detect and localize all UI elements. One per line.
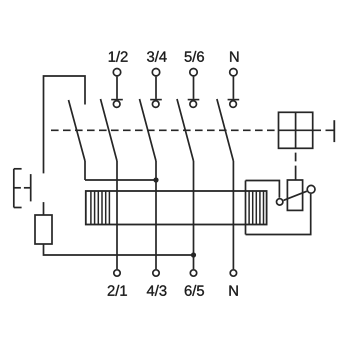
terminal 4/3: [153, 270, 159, 276]
terminal label 4/3: [147, 285, 167, 296]
terminal label 5/6: [185, 51, 204, 62]
terminal 1/2: [113, 69, 120, 76]
wire: pole 3 conductor through CT: [193, 161, 195, 269]
junction dot on L3 conductor: [191, 252, 196, 257]
wire: top-left bridge from module to auxiliary pole: [44, 76, 86, 173]
wire: trip circuit bottom return: [246, 194, 311, 235]
wire: tap from auxiliary pole to L2 conductor: [85, 179, 156, 181]
terminal label 1/2: [109, 51, 128, 62]
terminal label N top: [230, 52, 238, 62]
wire: resistor to L3 conductor bus: [44, 244, 194, 255]
terminal 2/1: [114, 270, 120, 276]
dashed linkage to handle bar: [313, 129, 334, 131]
terminal N bottom: [230, 270, 236, 276]
wire: module lower lead: [43, 202, 45, 215]
handle end bar: [333, 120, 335, 142]
current transformer core: [86, 191, 267, 225]
test button fixed contact: [277, 199, 283, 205]
terminal label 2/1: [108, 285, 127, 296]
auxiliary pole switch blade: [69, 100, 86, 161]
wire: test resistor top lead: [295, 173, 297, 181]
wire: pole 2 conductor through CT: [155, 161, 157, 269]
terminal 3/4: [152, 69, 159, 76]
junction dot on L2 conductor: [153, 177, 158, 182]
wire: terminal 3/4 to fixed contact: [155, 77, 157, 99]
wire: terminal N to fixed contact: [232, 77, 234, 99]
trip coil winding hatching: [249, 191, 263, 225]
mechanism box cross: [295, 112, 297, 148]
fixed contact pole 3: [188, 99, 200, 101]
wire: pole N conductor through CT: [232, 161, 234, 269]
switch blade pole 1: [101, 99, 118, 161]
terminal label 3/4: [147, 51, 167, 62]
electronic module symbol: [14, 169, 31, 208]
fixed contact pole 2: [150, 99, 162, 101]
mechanism box: [279, 112, 313, 148]
wire: trip circuit top to test button contact: [246, 181, 280, 198]
wire: terminal 1/2 to fixed contact: [116, 77, 118, 99]
fixed contact pole 1: [111, 99, 123, 101]
terminal label 6/5: [185, 285, 204, 296]
terminal N top: [230, 69, 237, 76]
test resistor: [287, 180, 302, 210]
dashed linkage to test resistor: [295, 153, 297, 173]
wire: pole 1 conductor through CT: [116, 161, 118, 269]
switch blade pole 2: [140, 99, 157, 161]
terminal 6/5: [190, 270, 196, 276]
fixed contact pole N: [228, 99, 240, 101]
resistor R1 (left): [35, 215, 52, 244]
primary winding hatching: [91, 191, 110, 225]
wire: auxiliary pole conductor: [84, 161, 86, 180]
dashed mechanical linkage line: [51, 129, 279, 131]
terminal label N bottom: [229, 286, 237, 296]
switch blade pole 3: [177, 99, 194, 161]
test button moving contact: [307, 185, 315, 193]
terminal 5/6: [190, 69, 197, 76]
wire: terminal 5/6 to fixed contact: [193, 77, 195, 99]
test button blade: [284, 191, 307, 200]
wire: trip circuit left side / coil separator: [245, 181, 247, 235]
switch blade pole N: [217, 99, 234, 161]
